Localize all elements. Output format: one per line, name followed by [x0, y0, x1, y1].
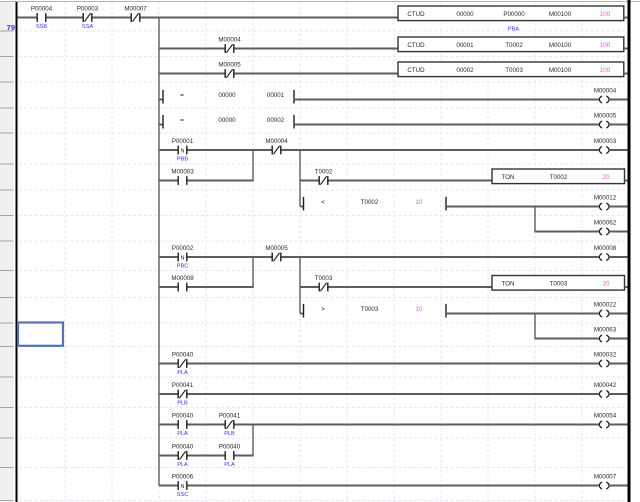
svg-text:T0003: T0003: [315, 275, 333, 282]
svg-text:M00004: M00004: [265, 138, 288, 145]
contact M00004 NC row6: [265, 138, 288, 154]
svg-text:SSB: SSB: [36, 24, 47, 30]
row-number gutter: [0, 2, 14, 502]
svg-text:PBB: PBB: [177, 157, 188, 163]
contact M00005 NC row3: [218, 62, 241, 78]
row16 wire segments: [159, 424, 599, 426]
contact P00003 (SSA) NC: [77, 6, 99, 31]
svg-text:T0002: T0002: [361, 199, 379, 206]
row14 wire segments: [159, 363, 599, 365]
top border line: [0, 1, 640, 3]
compare block &gt; T0003 10: [300, 304, 599, 318]
svg-text:P00001: P00001: [172, 138, 194, 145]
coil M00063: [594, 326, 617, 342]
svg-text:20: 20: [603, 174, 610, 181]
row7 TON branch wire: [300, 180, 492, 182]
contact P00004 (SSB) NO: [31, 6, 53, 31]
row10 wire segments: [159, 256, 599, 258]
svg-text:00000: 00000: [218, 92, 236, 99]
svg-text:T0002: T0002: [505, 42, 523, 49]
coil M00062 wire to rail: [609, 231, 627, 233]
svg-text:M00100: M00100: [549, 11, 572, 18]
contact T0003 NC row11: [315, 275, 333, 291]
coil M00032: [594, 351, 617, 367]
row18 wire segments: [159, 485, 599, 487]
counter block CTUD C0001: [398, 37, 628, 52]
contact P00040 (PLA) NO row17: [219, 444, 241, 469]
coil M00003 wire to rail: [609, 149, 627, 151]
row9 wire to coil: [535, 231, 599, 233]
row11 parallel wire M00008: [159, 286, 254, 288]
contact P00040 (PLA) NC row17: [172, 444, 194, 469]
left power rail: [16, 2, 18, 502]
svg-text:T0003: T0003: [550, 281, 568, 288]
svg-text:M00063: M00063: [594, 326, 617, 333]
coil M00022: [594, 301, 617, 317]
svg-text:M00008: M00008: [171, 275, 194, 282]
svg-text:00000: 00000: [218, 117, 236, 124]
branch vertical row8-row9 at 535: [534, 206, 536, 233]
row17 parallel wire: [159, 455, 254, 457]
svg-text:M00003: M00003: [594, 138, 617, 145]
svg-text:00000: 00000: [456, 11, 474, 18]
svg-text:CTUD: CTUD: [407, 42, 425, 49]
svg-text:M00100: M00100: [549, 67, 572, 74]
svg-text:CTUD: CTUD: [407, 11, 425, 18]
branch vertical row10-row12 at 300: [299, 256, 301, 313]
svg-text:N: N: [181, 484, 185, 490]
contact P00040 (PLA) NC row14: [172, 352, 194, 377]
svg-text:00001: 00001: [456, 42, 474, 49]
branch vertical row6-row7 at col boundary 253: [252, 149, 254, 181]
branch vertical row6-row8 at col boundary 300: [299, 149, 301, 206]
svg-text:100: 100: [600, 67, 611, 74]
compare block &lt; T0002 10: [300, 197, 599, 211]
svg-text:P00003: P00003: [77, 6, 99, 13]
svg-text:T0003: T0003: [361, 306, 379, 313]
svg-text:10: 10: [416, 199, 423, 206]
svg-text:PLB: PLB: [224, 431, 235, 437]
svg-text:M00062: M00062: [594, 219, 617, 226]
svg-text:=: =: [180, 92, 184, 99]
coil M00004 wire to rail: [609, 99, 627, 101]
contact M00004 NC row2: [218, 37, 241, 53]
svg-text:P00040: P00040: [219, 444, 241, 451]
row2 wire segments: [159, 48, 398, 50]
svg-text:M00042: M00042: [594, 382, 617, 389]
svg-text:00002: 00002: [267, 117, 285, 124]
svg-text:P00004: P00004: [31, 6, 53, 13]
svg-text:M00054: M00054: [594, 412, 617, 419]
coil M00004: [594, 87, 617, 103]
svg-text:P00006: P00006: [172, 474, 194, 481]
main left branch vertical wire: [158, 17, 160, 486]
svg-text:M00100: M00100: [549, 42, 572, 49]
svg-text:P00041: P00041: [172, 382, 194, 389]
row6 wire segments: [159, 149, 599, 151]
svg-text:M00005: M00005: [218, 62, 241, 69]
svg-text:TON: TON: [502, 281, 515, 288]
branch vertical row16-row17 at 253: [252, 424, 254, 457]
contact M00005 NC row10: [265, 245, 288, 261]
contact P00006 (SSC) N-edge: [172, 474, 194, 499]
svg-text:N: N: [181, 255, 185, 261]
svg-text:00001: 00001: [267, 92, 285, 99]
svg-text:TON: TON: [502, 174, 515, 181]
svg-text:SSC: SSC: [177, 492, 189, 498]
svg-text:>: >: [321, 306, 325, 313]
svg-text:PBC: PBC: [177, 264, 189, 270]
svg-text:PLB: PLB: [177, 401, 188, 407]
svg-text:CTUD: CTUD: [407, 67, 425, 74]
coil M00005: [594, 112, 617, 128]
coil M00054: [594, 412, 617, 428]
contact M00008 NO row11: [171, 275, 194, 291]
svg-text:P00002: P00002: [172, 245, 194, 252]
svg-text:M00007: M00007: [594, 473, 617, 480]
row3 wire segments: [159, 73, 398, 75]
svg-text:N: N: [181, 148, 185, 154]
svg-text:00002: 00002: [456, 67, 474, 74]
coil M00007: [594, 473, 617, 489]
svg-text:PLA: PLA: [177, 431, 188, 437]
svg-text:M00008: M00008: [594, 245, 617, 252]
svg-text:M00005: M00005: [594, 112, 617, 119]
right power rail: [628, 0, 631, 502]
selection cursor cell: [18, 323, 63, 346]
coil M00008 wire to rail: [609, 256, 627, 258]
coil M00054 wire to rail: [609, 424, 627, 426]
contact P00041 (PLB) NC row16: [219, 413, 241, 438]
svg-text:T0003: T0003: [505, 67, 523, 74]
svg-text:=: =: [180, 117, 184, 124]
svg-text:T0002: T0002: [315, 169, 333, 176]
row11 TON branch wire: [300, 286, 492, 288]
coil M00008: [594, 245, 617, 261]
svg-text:M00022: M00022: [594, 301, 617, 308]
row15 wire segments: [159, 393, 599, 395]
rung 79 wire segments row1: [18, 17, 399, 19]
svg-text:P00040: P00040: [172, 413, 194, 420]
svg-text:M00005: M00005: [265, 245, 288, 252]
svg-text:100: 100: [600, 11, 611, 18]
coil M00032 wire to rail: [609, 363, 627, 365]
contact T0002 NC row7: [315, 169, 333, 185]
gutter row separator lines: [0, 31, 14, 501]
timer block TON T0002: [492, 169, 628, 184]
svg-text:P00040: P00040: [172, 352, 194, 359]
svg-text:100: 100: [600, 42, 611, 49]
svg-text:PLA: PLA: [177, 462, 188, 468]
contact P00041 (PLB) NC row15: [172, 382, 194, 407]
svg-text:<: <: [321, 199, 325, 206]
svg-text:M00003: M00003: [171, 169, 194, 176]
contact M00007 NC: [124, 6, 147, 22]
coil M00012: [594, 194, 617, 210]
svg-text:PLA: PLA: [177, 370, 188, 376]
svg-text:PLA: PLA: [224, 462, 235, 468]
contact P00040 (PLA) NO row16: [172, 413, 194, 438]
svg-text:SSA: SSA: [82, 24, 93, 30]
row7 parallel wire M00003: [159, 180, 254, 182]
counter block CTUD C0000: [398, 6, 628, 21]
svg-text:M00004: M00004: [594, 87, 617, 94]
svg-text:M00032: M00032: [594, 351, 617, 358]
svg-text:PBA: PBA: [508, 27, 519, 33]
svg-text:79: 79: [7, 23, 15, 32]
contact P00002 (PBC) N-edge: [172, 245, 194, 270]
svg-text:P00040: P00040: [172, 444, 194, 451]
svg-text:20: 20: [603, 281, 610, 288]
coil M00042: [594, 382, 617, 398]
svg-text:M00012: M00012: [594, 194, 617, 201]
coil M00022 wire to rail: [609, 313, 627, 315]
coil M00042 wire to rail: [609, 393, 627, 395]
coil M00012 wire to rail: [609, 206, 627, 208]
svg-text:P00000: P00000: [503, 11, 525, 18]
branch vertical row10-row11 at 253: [252, 256, 254, 288]
row13 wire to coil: [535, 338, 599, 340]
coil M00062: [594, 219, 617, 235]
coil M00003: [594, 138, 617, 154]
svg-text:T0002: T0002: [550, 174, 568, 181]
svg-text:M00004: M00004: [218, 37, 241, 44]
coil M00007 wire to rail: [609, 485, 627, 487]
coil M00005 wire to rail: [609, 124, 627, 126]
compare block = 00000 00001: [159, 90, 599, 104]
svg-text:10: 10: [416, 306, 423, 313]
svg-text:P00041: P00041: [219, 413, 241, 420]
compare block = 00000 00002: [159, 115, 599, 129]
svg-text:M00007: M00007: [124, 6, 147, 13]
timer block TON T0003: [492, 276, 628, 291]
contact P00001 (PBB) N-edge: [172, 138, 194, 163]
coil M00063 wire to rail: [609, 338, 627, 340]
counter block CTUD C0002: [398, 62, 628, 77]
contact M00003 NO row7: [171, 169, 194, 185]
branch vertical row12-row13 at 535: [534, 313, 536, 340]
